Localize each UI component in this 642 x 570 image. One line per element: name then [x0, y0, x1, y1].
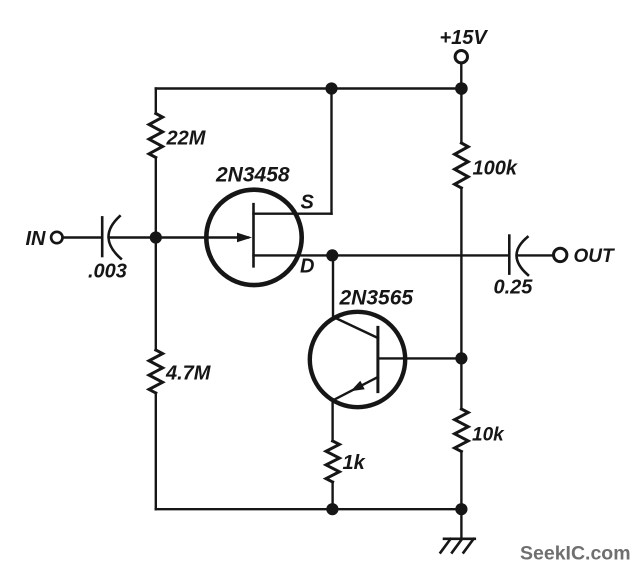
- resistor 1k: [326, 441, 339, 482]
- svg-text:SeekIC.com: SeekIC.com: [520, 543, 631, 565]
- capacitor 0.25: [508, 236, 511, 274]
- node ground junction: [455, 503, 467, 515]
- IN terminal: [51, 232, 62, 243]
- wire source lead up to top rail: [330, 89, 332, 214]
- transistor base bar: [376, 327, 379, 391]
- JFET drain lead: [254, 254, 333, 256]
- wire node A to JFET gate: [156, 236, 248, 238]
- svg-text:S: S: [301, 192, 315, 214]
- transistor Q1 2N3565 circle: [310, 312, 405, 407]
- wire node B down to transistor collector: [332, 255, 334, 318]
- wire top rail: [156, 87, 462, 89]
- wire left rail: node A up to resistor 22M: [155, 158, 157, 238]
- wire bottom rail: [156, 508, 462, 510]
- node B junction (drain/out): [326, 249, 338, 261]
- wire ground stub: [460, 509, 462, 538]
- wire IN terminal to capacitor C1: [63, 236, 102, 238]
- resistor 4.7M: [149, 350, 163, 393]
- node S-rail top junction: [325, 82, 337, 94]
- svg-text:0.25: 0.25: [494, 276, 534, 298]
- transistor emitter diagonal: [335, 377, 378, 400]
- OUT terminal: [554, 248, 567, 261]
- svg-text:2N3565: 2N3565: [339, 287, 414, 310]
- svg-text:22M: 22M: [166, 128, 207, 150]
- svg-text:+15V: +15V: [440, 27, 489, 49]
- node emitter-bottom junction: [326, 503, 338, 515]
- JFET gate arrow: [237, 233, 252, 243]
- wire capacitor C1 to node A: [111, 236, 156, 238]
- svg-text:IN: IN: [26, 228, 47, 250]
- wire +15V terminal to top rail: [460, 63, 462, 88]
- svg-text:1k: 1k: [343, 452, 366, 474]
- node C junction (base/divider): [455, 352, 467, 364]
- resistor 10k: [455, 409, 469, 452]
- wire left rail: resistor 4.7M to bottom corner: [155, 393, 157, 509]
- wire right rail: resistor 10k to bottom rail: [460, 452, 462, 510]
- wire right rail: resistor 100k down to resistor 10k: [460, 188, 462, 409]
- svg-text:4.7M: 4.7M: [165, 363, 212, 385]
- wire left rail: resistor 22M up to top wire corner: [155, 89, 157, 114]
- JFET channel bar: [252, 204, 255, 266]
- node A junction: [150, 231, 162, 243]
- svg-text:2N3458: 2N3458: [215, 164, 290, 187]
- capacitor .003: [101, 217, 104, 256]
- wire left rail: node A down to resistor 4.7M: [155, 238, 157, 351]
- svg-text:OUT: OUT: [574, 246, 616, 267]
- ground symbol: [441, 539, 475, 553]
- wire node B to output capacitor: [332, 254, 509, 256]
- resistor 22M: [149, 114, 163, 158]
- svg-text:.003: .003: [88, 261, 127, 283]
- svg-text:D: D: [300, 256, 314, 278]
- transistor collector diagonal: [335, 318, 378, 339]
- transistor emitter arrow: [351, 381, 365, 392]
- wire resistor 1k to bottom rail: [331, 482, 333, 509]
- wire emitter down to resistor 1k: [331, 400, 333, 442]
- JFET source lead: [254, 212, 332, 214]
- wire right rail: top junction to resistor 100k: [460, 89, 462, 144]
- node +15V rail junction: [455, 82, 468, 95]
- wire capacitor 0.25 to OUT terminal: [519, 254, 554, 256]
- svg-text:100k: 100k: [473, 158, 518, 180]
- JFET 2N3458 circle: [206, 190, 301, 285]
- +15V terminal: [455, 51, 467, 63]
- transistor base lead: [378, 357, 462, 359]
- resistor 100k: [455, 143, 469, 188]
- svg-text:10k: 10k: [472, 425, 505, 446]
